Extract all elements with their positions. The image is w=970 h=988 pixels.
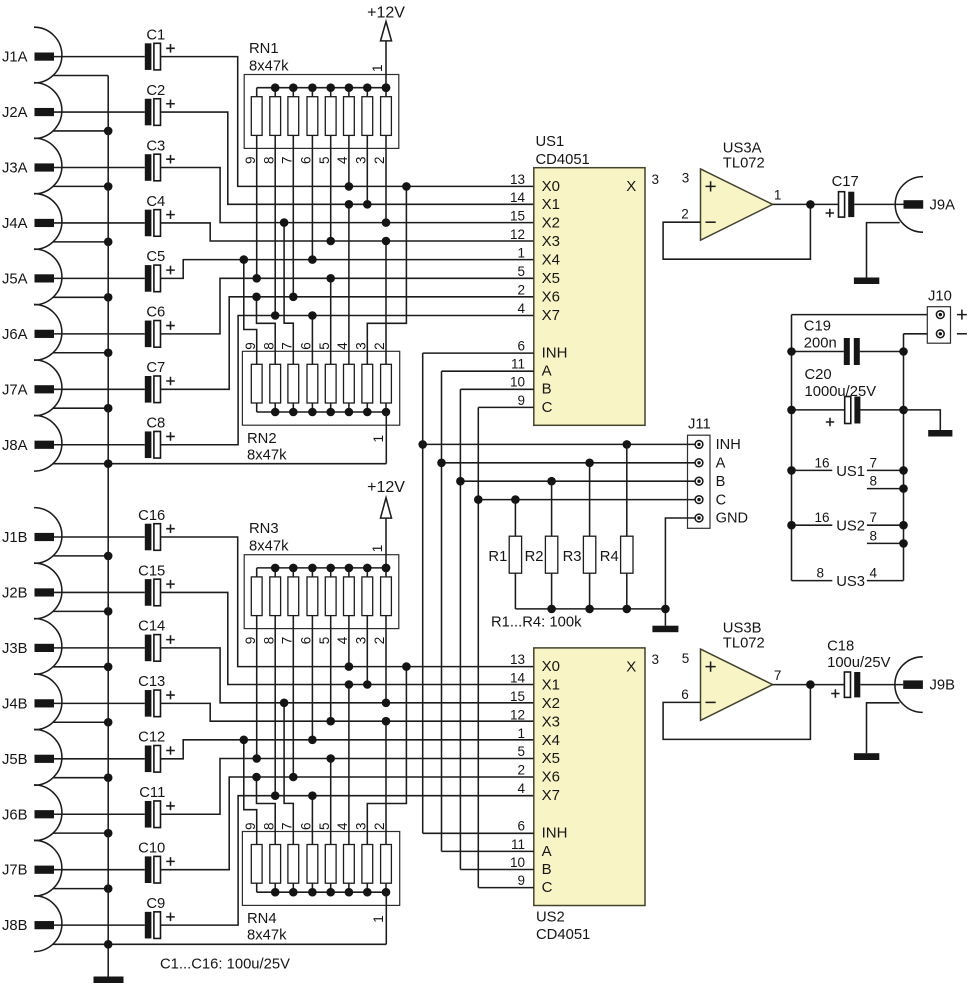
US2 power pins — [787, 510, 908, 548]
wire J1A sleeve — [53, 75, 108, 77]
svg-text:9: 9 — [243, 342, 258, 350]
svg-text:2: 2 — [372, 156, 387, 164]
svg-text:TL072: TL072 — [723, 636, 765, 652]
svg-text:US2: US2 — [836, 519, 865, 535]
connector J6A — [2, 304, 145, 360]
ground symbol J11 — [652, 626, 678, 633]
wire J11 INH row — [418, 440, 695, 449]
svg-text:2: 2 — [372, 637, 387, 645]
resistor R4 — [600, 444, 633, 609]
wire RN4 pin2 to X3B — [385, 721, 387, 844]
svg-text:5: 5 — [682, 651, 690, 666]
connector J10 — [927, 289, 967, 344]
svg-text:B: B — [542, 381, 552, 398]
svg-text:9: 9 — [243, 156, 258, 164]
wire net B6 (C11 to US2 X5) — [161, 759, 534, 815]
wire J7B sleeve — [53, 884, 112, 893]
wire J2B sleeve — [53, 607, 112, 616]
svg-text:1: 1 — [370, 545, 385, 553]
svg-text:200n: 200n — [804, 335, 837, 351]
svg-text:12: 12 — [510, 227, 525, 242]
resistor network RN3 — [244, 555, 399, 629]
wire net B1 (C16 to US2 X0) — [161, 537, 534, 667]
svg-text:3: 3 — [682, 171, 690, 186]
capacitor C4 — [145, 194, 175, 237]
capacitor C11 — [139, 785, 175, 828]
wire J10 minus — [904, 333, 928, 335]
wire RN1 pin2 to X2 — [385, 135, 387, 222]
svg-text:6: 6 — [299, 822, 314, 830]
J11 pin GND — [695, 511, 748, 527]
svg-text:11: 11 — [511, 357, 525, 372]
svg-text:X2: X2 — [542, 215, 560, 232]
wire J11 A row — [437, 459, 695, 468]
svg-text:7: 7 — [280, 342, 295, 350]
svg-text:4: 4 — [870, 566, 878, 581]
wire C18 to J9B — [860, 684, 903, 686]
svg-text:C16: C16 — [138, 508, 165, 524]
svg-text:C1: C1 — [146, 27, 165, 43]
wire J4B sleeve — [53, 718, 112, 727]
connector J8B — [2, 896, 145, 952]
op-amp US3B — [681, 621, 781, 721]
wire control INH US1 stub — [423, 352, 534, 354]
svg-text:X0: X0 — [542, 178, 560, 195]
svg-text:US1: US1 — [536, 134, 565, 150]
wire net B2 (C15 to US2 X1) — [161, 592, 534, 684]
wire J5B sleeve — [53, 773, 112, 782]
capacitor C14 — [138, 619, 175, 661]
wire net B5 (C12 to US2 X4) — [161, 740, 534, 759]
wire RN4 pin1 to ground row — [385, 892, 387, 944]
wire RN2 pin6 to X7 — [311, 316, 313, 365]
connector J5A — [2, 249, 145, 305]
svg-text:1: 1 — [517, 246, 525, 261]
wire control C US2 stub — [478, 887, 534, 889]
wire US3B feedback — [663, 685, 810, 740]
wire RN1 pin9 to X5 — [256, 135, 258, 278]
svg-text:C1...C16: 100u/25V: C1...C16: 100u/25V — [160, 957, 290, 973]
wire GND to ground symbol — [904, 410, 941, 430]
svg-text:X7: X7 — [542, 307, 560, 324]
svg-text:X4: X4 — [542, 252, 560, 269]
svg-text:C5: C5 — [146, 249, 165, 265]
wire net A3 (C3 to US1 X2) — [161, 168, 534, 223]
+12V supply arrow (RN1) — [367, 5, 405, 92]
RN1 pin labels 9-2 — [243, 156, 387, 164]
wire J5A sleeve — [53, 293, 112, 302]
wire J11 C row — [474, 495, 695, 504]
capacitor C7 — [145, 360, 175, 403]
svg-text:X7: X7 — [542, 787, 560, 804]
svg-text:R3: R3 — [563, 549, 582, 565]
svg-text:8: 8 — [870, 474, 878, 489]
wire +12V rail vertical — [791, 315, 793, 581]
svg-text:J2B: J2B — [2, 585, 28, 601]
svg-text:3: 3 — [354, 156, 369, 164]
svg-text:GND: GND — [716, 511, 748, 527]
capacitor C18 — [827, 638, 890, 697]
svg-text:2: 2 — [372, 822, 387, 830]
wire RN4 pin8 to X6B — [257, 777, 276, 845]
wire RN2 pin7 to X2 — [284, 223, 293, 365]
svg-text:J10: J10 — [928, 289, 952, 305]
wire J3B sleeve — [53, 663, 112, 672]
RN2 pin labels 9-2 — [243, 342, 387, 350]
svg-text:X4: X4 — [542, 732, 560, 749]
wire net A1 (C1 to US1 X0) — [161, 57, 534, 187]
capacitor C3 — [145, 138, 175, 181]
svg-text:B: B — [716, 474, 726, 490]
junction dots A rows — [240, 182, 411, 320]
svg-text:A: A — [542, 843, 552, 860]
svg-text:J6B: J6B — [2, 807, 28, 823]
svg-text:US1: US1 — [836, 464, 865, 480]
svg-text:US3: US3 — [836, 574, 865, 590]
wire control INH US2 stub — [423, 832, 534, 834]
wire control INH vertical — [422, 353, 424, 833]
svg-text:12: 12 — [510, 707, 525, 722]
resistor R3 — [563, 463, 596, 609]
svg-text:R2: R2 — [525, 549, 544, 565]
US2 label — [536, 910, 590, 944]
svg-text:2: 2 — [517, 763, 525, 778]
wire control A US1 stub — [442, 370, 534, 372]
svg-text:J7B: J7B — [2, 863, 28, 879]
svg-text:J8A: J8A — [2, 438, 28, 454]
svg-text:C17: C17 — [832, 174, 859, 190]
svg-text:8x47k: 8x47k — [247, 928, 287, 944]
wire control C US1 stub — [478, 406, 534, 408]
svg-text:J1A: J1A — [2, 50, 28, 66]
wire C17 to J9A — [854, 203, 903, 205]
svg-text:3: 3 — [652, 652, 660, 667]
wire net A4 (C4 to US1 X3) — [161, 223, 534, 241]
wire RN3 pin7 to X6B — [292, 616, 294, 777]
svg-text:9: 9 — [243, 822, 258, 830]
J11 pin B — [695, 474, 725, 490]
wire RN4 pin7 to X2B — [284, 703, 293, 845]
svg-text:INH: INH — [542, 345, 568, 362]
svg-text:J3A: J3A — [2, 161, 28, 177]
wire net A8 (C8 to US1 X7) — [161, 316, 534, 445]
svg-text:3: 3 — [354, 637, 369, 645]
svg-text:J3B: J3B — [2, 641, 28, 657]
svg-text:R1: R1 — [488, 549, 507, 565]
svg-text:J7A: J7A — [2, 382, 28, 398]
svg-text:X5: X5 — [542, 270, 560, 287]
svg-text:7: 7 — [774, 668, 782, 683]
svg-text:C11: C11 — [139, 785, 165, 801]
svg-text:8: 8 — [261, 156, 276, 164]
svg-text:8: 8 — [261, 822, 276, 830]
svg-text:5: 5 — [317, 156, 332, 164]
svg-text:J5B: J5B — [2, 752, 28, 768]
capacitor C17 — [826, 174, 859, 217]
wire J7A sleeve — [53, 404, 112, 413]
svg-text:CD4051: CD4051 — [536, 152, 590, 168]
svg-text:8x47k: 8x47k — [249, 539, 289, 555]
svg-text:RN1: RN1 — [249, 41, 279, 57]
ground bus wire — [107, 76, 109, 977]
RN3 label — [249, 521, 289, 555]
connector J7A — [2, 360, 145, 416]
svg-text:C20: C20 — [805, 367, 832, 383]
svg-text:C2: C2 — [146, 83, 165, 99]
svg-text:J11: J11 — [688, 417, 711, 433]
wire control C vertical — [477, 407, 479, 887]
svg-text:8: 8 — [816, 566, 824, 581]
wire J11 GND row — [665, 518, 695, 626]
svg-text:R4: R4 — [600, 549, 619, 565]
svg-text:14: 14 — [510, 190, 526, 205]
resistor network RN4 — [242, 832, 399, 906]
svg-text:X5: X5 — [542, 750, 560, 767]
wire RN1 pin3 to X1 — [366, 135, 368, 204]
wire +12V rail — [792, 314, 928, 316]
capacitor C2 — [145, 83, 175, 126]
connector J2B — [2, 563, 145, 619]
wire control A US2 stub — [442, 850, 534, 852]
svg-text:11: 11 — [511, 837, 525, 852]
svg-text:X0: X0 — [542, 658, 560, 675]
ground symbol J9A — [854, 278, 879, 285]
wire RN2 pin9 to X4 — [244, 260, 257, 365]
svg-text:C15: C15 — [138, 563, 165, 579]
svg-text:5: 5 — [517, 264, 525, 279]
wire US3A feedback — [663, 204, 810, 259]
capacitor C13 — [138, 674, 175, 716]
wire RN3 pin6 to X4B — [311, 616, 313, 740]
resistor network RN2 — [242, 351, 399, 425]
capacitor C6 — [145, 305, 175, 348]
wire RN4 pin3 to X0B — [367, 667, 406, 845]
wire RN3 pin8 to X7B — [274, 616, 276, 796]
connector J9A — [895, 177, 955, 233]
svg-text:1: 1 — [517, 726, 525, 741]
capacitor C5 — [145, 249, 175, 292]
wire J11 B row — [456, 477, 695, 486]
wire RN1 pin6 to X4 — [311, 135, 313, 259]
connector J4A — [2, 194, 145, 250]
svg-text:2: 2 — [681, 207, 689, 222]
svg-text:6: 6 — [517, 819, 525, 834]
wire RN3 pin9 to X5B — [256, 616, 258, 759]
svg-text:6: 6 — [299, 637, 314, 645]
wire J8B sleeve to RN4 pin1 — [53, 940, 386, 949]
svg-text:16: 16 — [814, 455, 829, 470]
svg-text:8x47k: 8x47k — [249, 59, 289, 75]
wire net B7 (C10 to US2 X6) — [161, 777, 534, 870]
svg-text:3: 3 — [354, 342, 369, 350]
capacitor C19 — [787, 318, 908, 365]
svg-text:1: 1 — [370, 64, 385, 72]
wire J9A sleeve to ground — [867, 223, 900, 278]
wire RN4 pin6 to X7B — [311, 796, 313, 845]
capacitor C20 — [787, 367, 908, 426]
US3 power pins — [792, 566, 904, 591]
svg-text:RN2: RN2 — [247, 431, 277, 447]
svg-text:A: A — [542, 363, 552, 380]
svg-text:J4A: J4A — [2, 216, 28, 232]
svg-text:+12V: +12V — [367, 479, 405, 496]
wire control B US2 stub — [460, 869, 533, 871]
wire RN3 pin2 to X2B — [385, 616, 387, 703]
wire RN3 pin5 to X3B — [330, 616, 332, 722]
wire RN2 pin3 to X0 — [367, 186, 406, 364]
svg-text:4: 4 — [335, 636, 350, 644]
RN4 label — [247, 911, 287, 944]
wire J6A sleeve — [53, 348, 112, 357]
connector J2A — [2, 83, 145, 139]
svg-text:X1: X1 — [542, 676, 560, 693]
wire J2A sleeve — [53, 127, 112, 136]
wire net B3 (C14 to US2 X2) — [161, 648, 534, 703]
wire RN2 pin4 to X1 — [348, 204, 350, 364]
connector J1A — [2, 27, 145, 83]
wire net B8 (C9 to US2 X7) — [161, 796, 534, 925]
svg-text:B: B — [542, 861, 552, 878]
svg-text:US2: US2 — [536, 910, 565, 926]
wire RN1 pin7 to X6 — [292, 135, 294, 296]
svg-text:RN4: RN4 — [247, 911, 277, 927]
wire RN4 pin4 to X1B — [348, 685, 350, 845]
svg-text:C13: C13 — [138, 674, 165, 690]
resistor network RN1 — [244, 75, 399, 149]
wire J9B sleeve to ground — [867, 703, 900, 753]
connector J3A — [2, 138, 145, 194]
multiplexer US1 CD4051 — [510, 168, 659, 426]
RN1 label — [249, 41, 289, 75]
svg-text:INH: INH — [716, 437, 741, 453]
svg-text:C: C — [716, 492, 727, 508]
connector J8A — [2, 415, 145, 471]
junction dots B rows — [240, 662, 411, 800]
svg-text:C14: C14 — [138, 619, 165, 635]
+12V supply arrow (RN3) — [367, 479, 405, 572]
svg-text:7: 7 — [870, 455, 878, 470]
svg-text:C6: C6 — [146, 305, 165, 321]
wire US3B output — [773, 680, 845, 689]
connector J5B — [2, 729, 145, 785]
svg-text:13: 13 — [510, 172, 525, 187]
wire GND rail vertical — [903, 334, 905, 581]
wire R1-R4 bottom rail — [515, 605, 669, 614]
svg-text:1: 1 — [371, 435, 386, 443]
wire net B4 (C13 to US2 X3) — [161, 703, 534, 721]
connector J6B — [2, 785, 145, 841]
svg-text:5: 5 — [517, 744, 525, 759]
US1 label — [536, 134, 590, 168]
wire RN2 pin8 to X6 — [257, 297, 276, 365]
wire net A7 (C7 to US1 X6) — [161, 297, 534, 390]
svg-text:15: 15 — [510, 689, 525, 704]
wire net A2 (C2 to US1 X1) — [161, 112, 534, 204]
multiplexer US2 CD4051 — [510, 648, 659, 906]
wire RN2 pin2 to X3 — [385, 241, 387, 364]
wire RN4 pin9 to X4B — [244, 740, 257, 845]
wire J6B sleeve — [53, 829, 112, 838]
svg-text:C19: C19 — [804, 318, 831, 334]
svg-text:4: 4 — [335, 822, 350, 830]
svg-text:C18: C18 — [827, 638, 854, 654]
US1 power pins — [787, 455, 908, 493]
svg-text:J8B: J8B — [2, 918, 28, 934]
svg-text:14: 14 — [510, 670, 526, 685]
svg-text:C: C — [542, 399, 553, 416]
wire RN1 pin8 to X7 — [274, 135, 276, 315]
capacitor C1 — [145, 27, 175, 70]
svg-text:7: 7 — [280, 822, 295, 830]
svg-text:9: 9 — [243, 637, 258, 645]
J11 pin INH — [695, 437, 741, 453]
capacitor C16 — [138, 508, 175, 551]
RN2 label — [247, 431, 287, 464]
svg-text:CD4051: CD4051 — [536, 927, 590, 943]
svg-text:8: 8 — [261, 637, 276, 645]
resistor R1 — [488, 500, 521, 609]
svg-text:6: 6 — [299, 156, 314, 164]
wire RN3 pin4 to X0B — [348, 616, 350, 667]
J11 pin A — [695, 456, 726, 472]
wire RN1 pin5 to X3 — [330, 135, 332, 241]
wire RN2 pin5 to X5 — [330, 278, 332, 364]
svg-text:10: 10 — [510, 855, 525, 870]
capacitor C15 — [138, 563, 175, 606]
svg-text:8: 8 — [261, 342, 276, 350]
svg-text:C4: C4 — [146, 194, 165, 210]
capacitor C8 — [145, 416, 175, 459]
svg-text:10: 10 — [510, 375, 525, 390]
svg-text:6: 6 — [517, 339, 525, 354]
svg-text:5: 5 — [317, 822, 332, 830]
svg-text:5: 5 — [317, 637, 332, 645]
svg-text:J2A: J2A — [2, 105, 28, 121]
svg-text:C12: C12 — [138, 730, 165, 746]
svg-text:1000u/25V: 1000u/25V — [805, 384, 877, 400]
connector J9B — [895, 657, 955, 713]
svg-text:X1: X1 — [542, 196, 560, 213]
svg-text:15: 15 — [510, 209, 525, 224]
svg-text:6: 6 — [299, 342, 314, 350]
connector J1B — [2, 508, 145, 564]
svg-text:2: 2 — [372, 342, 387, 350]
svg-text:9: 9 — [517, 393, 525, 408]
svg-text:R1...R4: 100k: R1...R4: 100k — [491, 615, 582, 631]
wire J8A sleeve to RN2 pin1 — [53, 459, 386, 468]
svg-text:1: 1 — [371, 915, 386, 923]
svg-text:5: 5 — [317, 342, 332, 350]
svg-text:100u/25V: 100u/25V — [827, 655, 890, 671]
svg-text:+12V: +12V — [367, 5, 405, 22]
svg-text:X6: X6 — [542, 769, 560, 786]
wire RN2 pin1 to ground row — [385, 412, 387, 464]
svg-text:7: 7 — [870, 510, 878, 525]
svg-text:J9A: J9A — [930, 197, 956, 213]
wire RN1 pin4 to X0 — [348, 135, 350, 186]
op-amp US3A — [681, 141, 781, 241]
connector J3B — [2, 619, 145, 675]
svg-text:X3: X3 — [542, 713, 560, 730]
svg-text:X3: X3 — [542, 233, 560, 250]
wire RN3 pin3 to X1B — [366, 616, 368, 685]
svg-text:J4B: J4B — [2, 696, 28, 712]
svg-text:13: 13 — [510, 652, 525, 667]
svg-text:X: X — [626, 178, 636, 195]
connector J7B — [2, 840, 145, 896]
capacitor C10 — [138, 841, 175, 884]
svg-text:C9: C9 — [146, 896, 165, 912]
